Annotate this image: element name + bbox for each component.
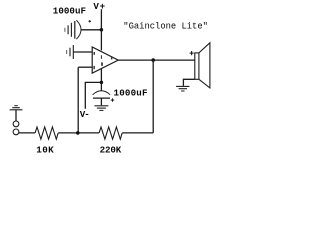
svg-text:"Gainclone Lite": "Gainclone Lite" [123, 21, 208, 31]
ground G1 at capacitor C1 (bars) [70, 23, 72, 37]
node junction dot C1/V+ rail [100, 28, 104, 32]
pin 10 label (+input) [94, 52, 96, 55]
svg-text:V+: V+ [93, 1, 105, 12]
node junction dot V- [100, 81, 104, 85]
svg-text:V-: V- [80, 109, 90, 120]
wire V- branch [85, 82, 101, 108]
capacitor C2 plus mark [111, 99, 114, 101]
wire jack to resistor R1 [19, 132, 35, 134]
wire +input to ground [73, 51, 92, 53]
capacitor C1 1000uF positive lead [81, 29, 102, 31]
wire op-amp V- pin down to junction [100, 69, 102, 91]
capacitor C1 straight plate [74, 21, 76, 39]
wire V+ rail [100, 9, 102, 50]
wire R1 to feedback node [58, 132, 99, 134]
wire capacitor C2 lower lead [100, 98, 102, 105]
node junction dot output/feedback [151, 58, 155, 62]
wire feedback from output down [152, 60, 154, 133]
input jack J1 terminal circle upper [13, 121, 19, 127]
pin 1 label (V+) [101, 55, 102, 59]
wire -input [78, 66, 92, 68]
resistor R1 10K zigzag [35, 127, 58, 139]
capacitor C2 straight plate [93, 97, 110, 99]
ground G2 at op-amp +input (bars) [72, 45, 74, 59]
svg-text:1000uF: 1000uF [53, 6, 86, 17]
capacitor C1 curved plate [76, 20, 81, 39]
op-amp U1 triangle body [92, 47, 118, 73]
ground G3 below capacitor C2 (bars) [94, 105, 108, 107]
wire feedback vertical [77, 67, 79, 133]
speaker LS1 horn [199, 43, 210, 88]
pin 3 label (output) [111, 57, 113, 60]
speaker LS1 box [195, 53, 199, 79]
pin 4 label (V-) [101, 62, 103, 65]
wire jack ground lead [15, 110, 17, 121]
pin 7 label (-input) [93, 66, 95, 69]
node junction dot feedback/bottom rail [76, 131, 80, 135]
svg-text:10K: 10K [36, 144, 54, 155]
speaker LS1 plus mark [190, 52, 194, 54]
svg-text:1000uF: 1000uF [114, 87, 148, 98]
svg-text:220K: 220K [100, 144, 122, 155]
wire R2 to feedback corner [122, 132, 153, 134]
capacitor C1 plus mark [89, 20, 92, 22]
wire op-amp output [118, 59, 195, 61]
input jack J1 ground bars [14, 105, 17, 107]
input jack J1 terminal circle lower [13, 129, 19, 135]
capacitor C2 1000uF curved plate [93, 91, 111, 95]
resistor R2 220K zigzag [99, 127, 122, 139]
ground G4 at speaker (bars) [176, 85, 189, 87]
wire speaker lower lead [183, 79, 194, 86]
